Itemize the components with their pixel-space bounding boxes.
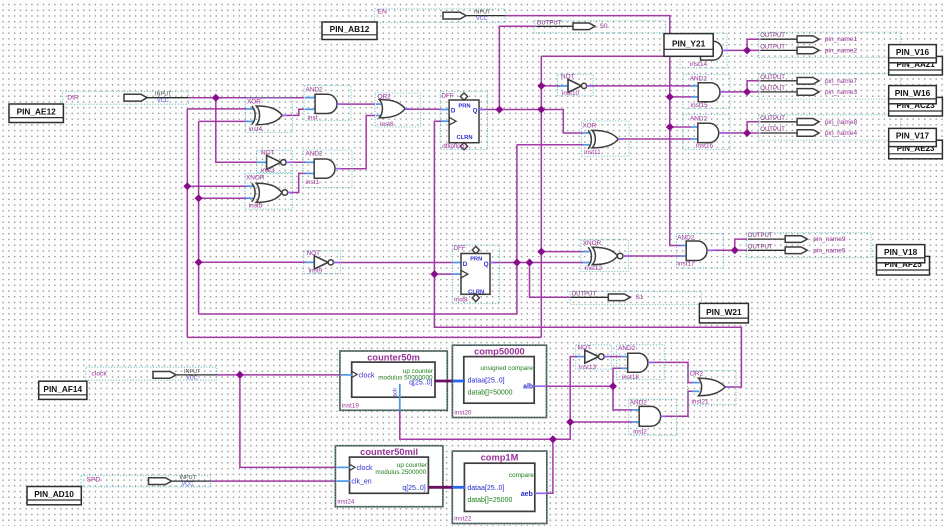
svg-text:inst20: inst20 [454, 410, 471, 417]
wire tick branch to DFF inst8 clock [434, 273, 453, 275]
svg-text:OUTPUT: OUTPUT [748, 233, 773, 239]
svg-text:EN: EN [378, 8, 387, 15]
svg-text:Q: Q [484, 261, 489, 268]
svg-text:OUTPUT: OUTPUT [760, 45, 785, 51]
wire net S0-feedback bottom run to S0 riser [187, 336, 541, 338]
pin box PIN_W21 [699, 303, 748, 323]
svg-text:inst8: inst8 [454, 297, 468, 304]
svg-text:AND2: AND2 [306, 86, 323, 93]
not gate inst9 [304, 250, 341, 274]
wire net S1-feedback vertical [198, 121, 200, 314]
pin box PIN_AB12 [322, 22, 377, 40]
output pin pair pin_name1 pin_name2 [759, 32, 901, 57]
wire AND2 inst18 output to OR2 inst21 upper input [649, 362, 695, 382]
svg-text:pin_name7: pin_name7 [825, 78, 858, 85]
svg-text:compare: compare [509, 472, 534, 479]
svg-text:inst16: inst16 [696, 143, 713, 150]
svg-text:OUTPUT: OUTPUT [760, 75, 785, 81]
svg-text:VCC: VCC [182, 482, 194, 488]
svg-text:XNOR: XNOR [583, 240, 602, 247]
svg-text:clk_en: clk_en [351, 479, 371, 486]
svg-text:pin_name5: pin_name5 [813, 248, 846, 255]
junction clock [236, 371, 244, 379]
svg-text:PRN: PRN [470, 257, 482, 263]
svg-text:clock: clock [357, 465, 373, 472]
pin box PIN_V18 [877, 245, 925, 263]
junction S0 trunk XNOR12 [537, 248, 545, 256]
wire AND2 inst2 output to OR2 inst21 lower input [661, 391, 695, 416]
input pin clock [86, 367, 217, 381]
output pin pair pin_name8 pin_name4 [759, 115, 901, 140]
and gate inst1 [303, 150, 352, 188]
block comp1M [452, 451, 547, 523]
svg-text:inst1: inst1 [306, 179, 320, 186]
svg-text:CLRN: CLRN [468, 289, 484, 295]
svg-text:OR2: OR2 [690, 371, 704, 378]
svg-text:INPUT: INPUT [155, 92, 172, 98]
svg-text:counter50m: counter50m [367, 353, 420, 363]
wire AND2 inst1 output to OR2 inst6 lower input [336, 116, 375, 169]
wire EN branch to inst16 upper input [670, 126, 691, 128]
wire Q2 riser to XOR inst11 lower input [517, 144, 583, 146]
wire net S1-feedback to XOR inst4 lower input [199, 120, 247, 122]
junction S0 trunk NOT10 [537, 82, 545, 90]
input pin DIR [63, 92, 189, 105]
svg-text:AND2: AND2 [690, 76, 707, 83]
svg-text:NOT: NOT [261, 149, 275, 156]
block counter50mil [335, 446, 443, 507]
pin box PIN_V17 [889, 128, 937, 146]
junction aeb inst2 [566, 418, 574, 426]
wire net S0-feedback vertical [186, 109, 188, 338]
svg-text:D: D [463, 261, 468, 268]
svg-text:DIR: DIR [67, 94, 79, 101]
svg-text:inst19: inst19 [342, 402, 359, 409]
junction Q2 riser [513, 259, 521, 267]
wire alb branch to AND2 inst2 upper input [613, 386, 632, 410]
svg-text:comp1M: comp1M [481, 453, 519, 463]
not gate inst10 [558, 74, 593, 97]
pin box PIN_AF14 [39, 381, 87, 399]
svg-text:inst18: inst18 [622, 374, 639, 381]
svg-text:inst6: inst6 [380, 121, 394, 128]
wire OR2 inst6 output to dflipflop1 D input [405, 108, 441, 110]
wire counter50m sclr down-run [400, 410, 570, 439]
svg-text:NOT: NOT [561, 74, 575, 81]
input pin EN [375, 8, 506, 22]
svg-text:INPUT: INPUT [180, 475, 197, 481]
svg-text:q[25..0]: q[25..0] [409, 380, 432, 387]
output pin pair pin_name7 pin_name3 [759, 74, 901, 99]
wire XOR inst11 output to AND2 inst16 lower input [618, 138, 691, 140]
svg-text:PIN_AE12: PIN_AE12 [17, 107, 57, 117]
wire XNOR inst5 output to AND2 inst1 lower input [288, 173, 305, 192]
and gate inst17 [677, 234, 724, 269]
wire tick net OR2 inst21 output to flipflop clocks [434, 121, 741, 387]
wire AND2 inst14 output to pin_name1/2 [722, 39, 760, 50]
wire S0 trunk top to AND2 inst14 lower input [541, 55, 691, 57]
wire net aeb to NOT inst13 input [570, 357, 578, 422]
svg-text:dataa[25..0]: dataa[25..0] [467, 485, 504, 492]
wire NOT inst10 output to AND2 inst15 upper input [586, 85, 691, 87]
wire comp50000 alb output run [547, 385, 614, 387]
svg-text:DFF: DFF [441, 92, 454, 99]
svg-text:aeb: aeb [521, 491, 533, 498]
d-flipflop dflipflop1 [440, 91, 487, 150]
junction netB to XNOR5 [195, 194, 203, 202]
svg-text:dataa[25..0]: dataa[25..0] [468, 378, 505, 385]
wire SPD input to counter50mil clk_en [211, 480, 337, 482]
svg-text:inst17: inst17 [678, 261, 695, 268]
svg-text:modulus 2500000: modulus 2500000 [375, 469, 426, 476]
or gate inst6 [375, 93, 421, 128]
pin box PIN_AC23 [889, 97, 943, 116]
junction tick DFF2 clock [430, 270, 438, 278]
svg-text:OR2: OR2 [378, 94, 392, 101]
xor gate inst4 [246, 98, 293, 134]
and gate inst14 [680, 33, 727, 68]
svg-text:clock: clock [359, 372, 375, 379]
wire S0 vertical trunk [540, 56, 542, 337]
svg-text:inst24: inst24 [337, 499, 354, 506]
wire EN net from input pin to inst17 via risers [506, 16, 682, 246]
and gate inst [304, 86, 351, 122]
wire S0 riser from Q1 to output pin S0 [499, 26, 536, 109]
bus counter50m q to comp50000 dataa [435, 380, 465, 383]
output pin pair pin_name9 pin_name5 [746, 233, 871, 258]
bus counter50mil q to comp1M dataa [428, 486, 465, 489]
wire alb branch to AND2 inst18 lower input [613, 368, 621, 386]
pin box PIN_AF25 [877, 256, 930, 275]
and gate inst18 [617, 345, 665, 381]
svg-text:S0: S0 [600, 23, 608, 30]
svg-text:XOR: XOR [247, 99, 261, 106]
svg-text:VCC: VCC [476, 16, 488, 22]
wire net aeb to AND2 inst2 lower input [570, 421, 632, 423]
svg-text:OUTPUT: OUTPUT [760, 127, 785, 133]
svg-text:VCC: VCC [186, 375, 198, 381]
wire S0 trunk jog to XOR inst11 upper input [541, 110, 583, 134]
wire net S1-feedback to XNOR inst5 lower input [199, 197, 246, 199]
svg-text:alb: alb [523, 384, 533, 391]
junction rows73 [743, 88, 751, 96]
svg-text:XNOR: XNOR [246, 174, 265, 181]
wire S0 trunk branch to NOT inst10 input [541, 85, 560, 87]
junction rows12 [743, 46, 751, 54]
svg-text:PIN_W21: PIN_W21 [706, 307, 742, 317]
svg-text:PIN_V18: PIN_V18 [884, 247, 918, 257]
block counter50m [340, 351, 447, 411]
svg-text:XOR: XOR [583, 122, 597, 129]
and gate inst15 [683, 75, 730, 110]
xor gate inst11 [582, 121, 629, 156]
wire comp1M aeb output riser [535, 439, 553, 493]
wire NOT inst13 output to AND2 inst18 upper input [605, 356, 621, 358]
wire net S0-feedback to XOR inst4 upper input [187, 108, 246, 110]
svg-text:AND2: AND2 [677, 234, 694, 241]
wire AND2 inst output to OR2 inst6 upper input [337, 103, 375, 105]
svg-text:INPUT: INPUT [474, 10, 491, 16]
junction S1 branch [526, 259, 534, 267]
svg-text:clock: clock [92, 370, 108, 377]
svg-text:INPUT: INPUT [184, 369, 201, 375]
block comp50000 [452, 345, 546, 417]
output pin S0 [534, 21, 665, 33]
svg-text:SPD: SPD [87, 477, 101, 484]
svg-text:OUTPUT: OUTPUT [572, 292, 597, 298]
pin box PIN_Y21 [664, 34, 713, 57]
svg-text:inst5: inst5 [249, 203, 263, 210]
not gate inst3 [257, 149, 293, 174]
svg-text:pin_name9: pin_name9 [813, 236, 846, 243]
wire net S0-feedback to XNOR inst5 upper input [187, 185, 246, 187]
svg-text:inst15: inst15 [691, 102, 708, 109]
svg-text:inst2: inst2 [633, 429, 647, 436]
xnor gate inst5 [245, 174, 293, 210]
svg-text:PIN_W16: PIN_W16 [895, 88, 931, 98]
svg-text:OUTPUT: OUTPUT [760, 86, 785, 92]
svg-text:PIN_AB12: PIN_AB12 [330, 24, 370, 34]
svg-text:datab[]=25000: datab[]=25000 [467, 497, 512, 504]
svg-text:PIN_Y21: PIN_Y21 [672, 38, 706, 48]
output pin S1 [570, 292, 702, 305]
svg-text:inst4: inst4 [249, 126, 263, 133]
svg-text:comp50000: comp50000 [474, 347, 525, 357]
svg-text:NOT: NOT [578, 345, 592, 352]
svg-text:PIN_AD10: PIN_AD10 [34, 489, 74, 499]
svg-text:OUTPUT: OUTPUT [748, 245, 773, 251]
svg-text:S1: S1 [636, 294, 644, 301]
pin box PIN_W16 [889, 86, 937, 104]
wire AND2 inst15 output to pin_name7/3 [719, 81, 759, 92]
svg-text:pin_name1: pin_name1 [825, 36, 858, 43]
junction S0 trunk Q1 [537, 106, 545, 114]
wire XNOR inst12 output to AND2 inst17 lower input [622, 255, 681, 257]
wire net S1-feedback bottom run to Q2 riser [199, 145, 517, 314]
svg-text:inst12: inst12 [585, 265, 602, 272]
pin box PIN_AE23 [889, 140, 943, 159]
svg-text:pin_name3: pin_name3 [825, 89, 858, 96]
wire AND2 inst16 output to pin_name8/4 [720, 122, 759, 133]
junction rows95 [731, 246, 739, 254]
svg-text:unsigned compare: unsigned compare [480, 365, 533, 372]
svg-text:q[25..0]: q[25..0] [402, 485, 425, 492]
svg-text:counter50mil: counter50mil [360, 447, 418, 457]
wire clock branch to counter50mil clock [240, 375, 337, 468]
input pin SPD [81, 475, 211, 487]
svg-text:OUTPUT: OUTPUT [760, 33, 785, 39]
svg-text:inst9: inst9 [309, 267, 323, 274]
not gate inst13 [576, 345, 612, 371]
svg-text:AND2: AND2 [690, 115, 707, 122]
svg-text:AND2: AND2 [630, 400, 647, 407]
svg-text:dflipflop1: dflipflop1 [442, 143, 468, 150]
svg-text:inst3: inst3 [261, 167, 275, 174]
svg-text:PIN_AF14: PIN_AF14 [43, 384, 82, 394]
and gate inst2 [629, 399, 677, 436]
d-flipflop inst8 [452, 245, 499, 304]
svg-text:sclr: sclr [393, 388, 399, 397]
svg-text:OUTPUT: OUTPUT [760, 116, 785, 122]
wire S1 branch from Q2 to output pin S1 [530, 263, 572, 298]
junction alb [609, 382, 617, 390]
svg-text:inst11: inst11 [584, 149, 601, 156]
pin box PIN_AD10 [27, 487, 81, 505]
pin box PIN_V16 [889, 45, 937, 63]
wire NOT inst3 output to AND2 inst1 upper input [288, 161, 305, 163]
svg-text:datab[]=50000: datab[]=50000 [468, 389, 513, 396]
svg-text:Q: Q [473, 108, 478, 115]
svg-text:D: D [451, 108, 456, 115]
wire DIR input to AND2 inst upper input [189, 97, 305, 99]
svg-text:AND2: AND2 [618, 345, 635, 352]
svg-text:DFF: DFF [453, 245, 466, 252]
svg-text:pin_name4: pin_name4 [825, 130, 858, 137]
pin box PIN_AA21 [889, 56, 943, 75]
wire DIR branch down to NOT inst3 input [216, 98, 258, 163]
wire S0 trunk branch to XNOR inst12 upper input [541, 251, 583, 253]
wire XOR inst4 output to AND2 inst lower input [282, 109, 304, 115]
wire DFF inst8 Q output to XNOR inst12 lower input [490, 262, 583, 264]
svg-text:inst: inst [308, 114, 318, 121]
wire EN branch to inst15 lower input [670, 96, 691, 98]
svg-text:PIN_V16: PIN_V16 [896, 47, 930, 57]
junction netA to XNOR5 [183, 182, 191, 190]
junction rows84 [743, 129, 751, 137]
junction S0 riser [495, 106, 503, 114]
junction DIR branch [212, 94, 220, 102]
svg-text:inst13: inst13 [579, 364, 596, 371]
svg-text:pin_name2: pin_name2 [825, 48, 858, 55]
wire NOT inst9 output to DFF inst8 D input [334, 262, 453, 264]
wire clock input to counter50m clock [217, 374, 341, 376]
wire AND2 inst17 output to pin_name9/5 [708, 239, 747, 250]
junction EN inst16 [666, 123, 674, 131]
junction EN inst15 [666, 93, 674, 101]
or gate inst21 [688, 371, 737, 406]
pin box PIN_AE12 [9, 104, 63, 123]
and gate inst16 [683, 115, 730, 150]
svg-text:NOT: NOT [307, 250, 321, 257]
svg-text:inst21: inst21 [692, 399, 709, 406]
svg-text:OUTPUT: OUTPUT [537, 21, 562, 27]
svg-text:inst14: inst14 [690, 61, 707, 68]
svg-text:PIN_V17: PIN_V17 [896, 131, 930, 141]
svg-text:pin_name8: pin_name8 [825, 119, 858, 126]
junction aeb riser [549, 435, 557, 443]
svg-text:inst22: inst22 [454, 516, 471, 523]
svg-text:CLRN: CLRN [456, 135, 472, 141]
xnor gate inst12 [581, 240, 629, 272]
svg-text:VCC: VCC [157, 98, 169, 104]
wire dflipflop1 Q output line [479, 109, 541, 111]
svg-text:AND2: AND2 [306, 151, 323, 158]
svg-text:inst10: inst10 [562, 90, 579, 97]
junction netB to NOT9 [195, 258, 203, 266]
wire net S1-feedback to NOT inst9 input [199, 261, 305, 263]
svg-text:PRN: PRN [458, 103, 470, 109]
